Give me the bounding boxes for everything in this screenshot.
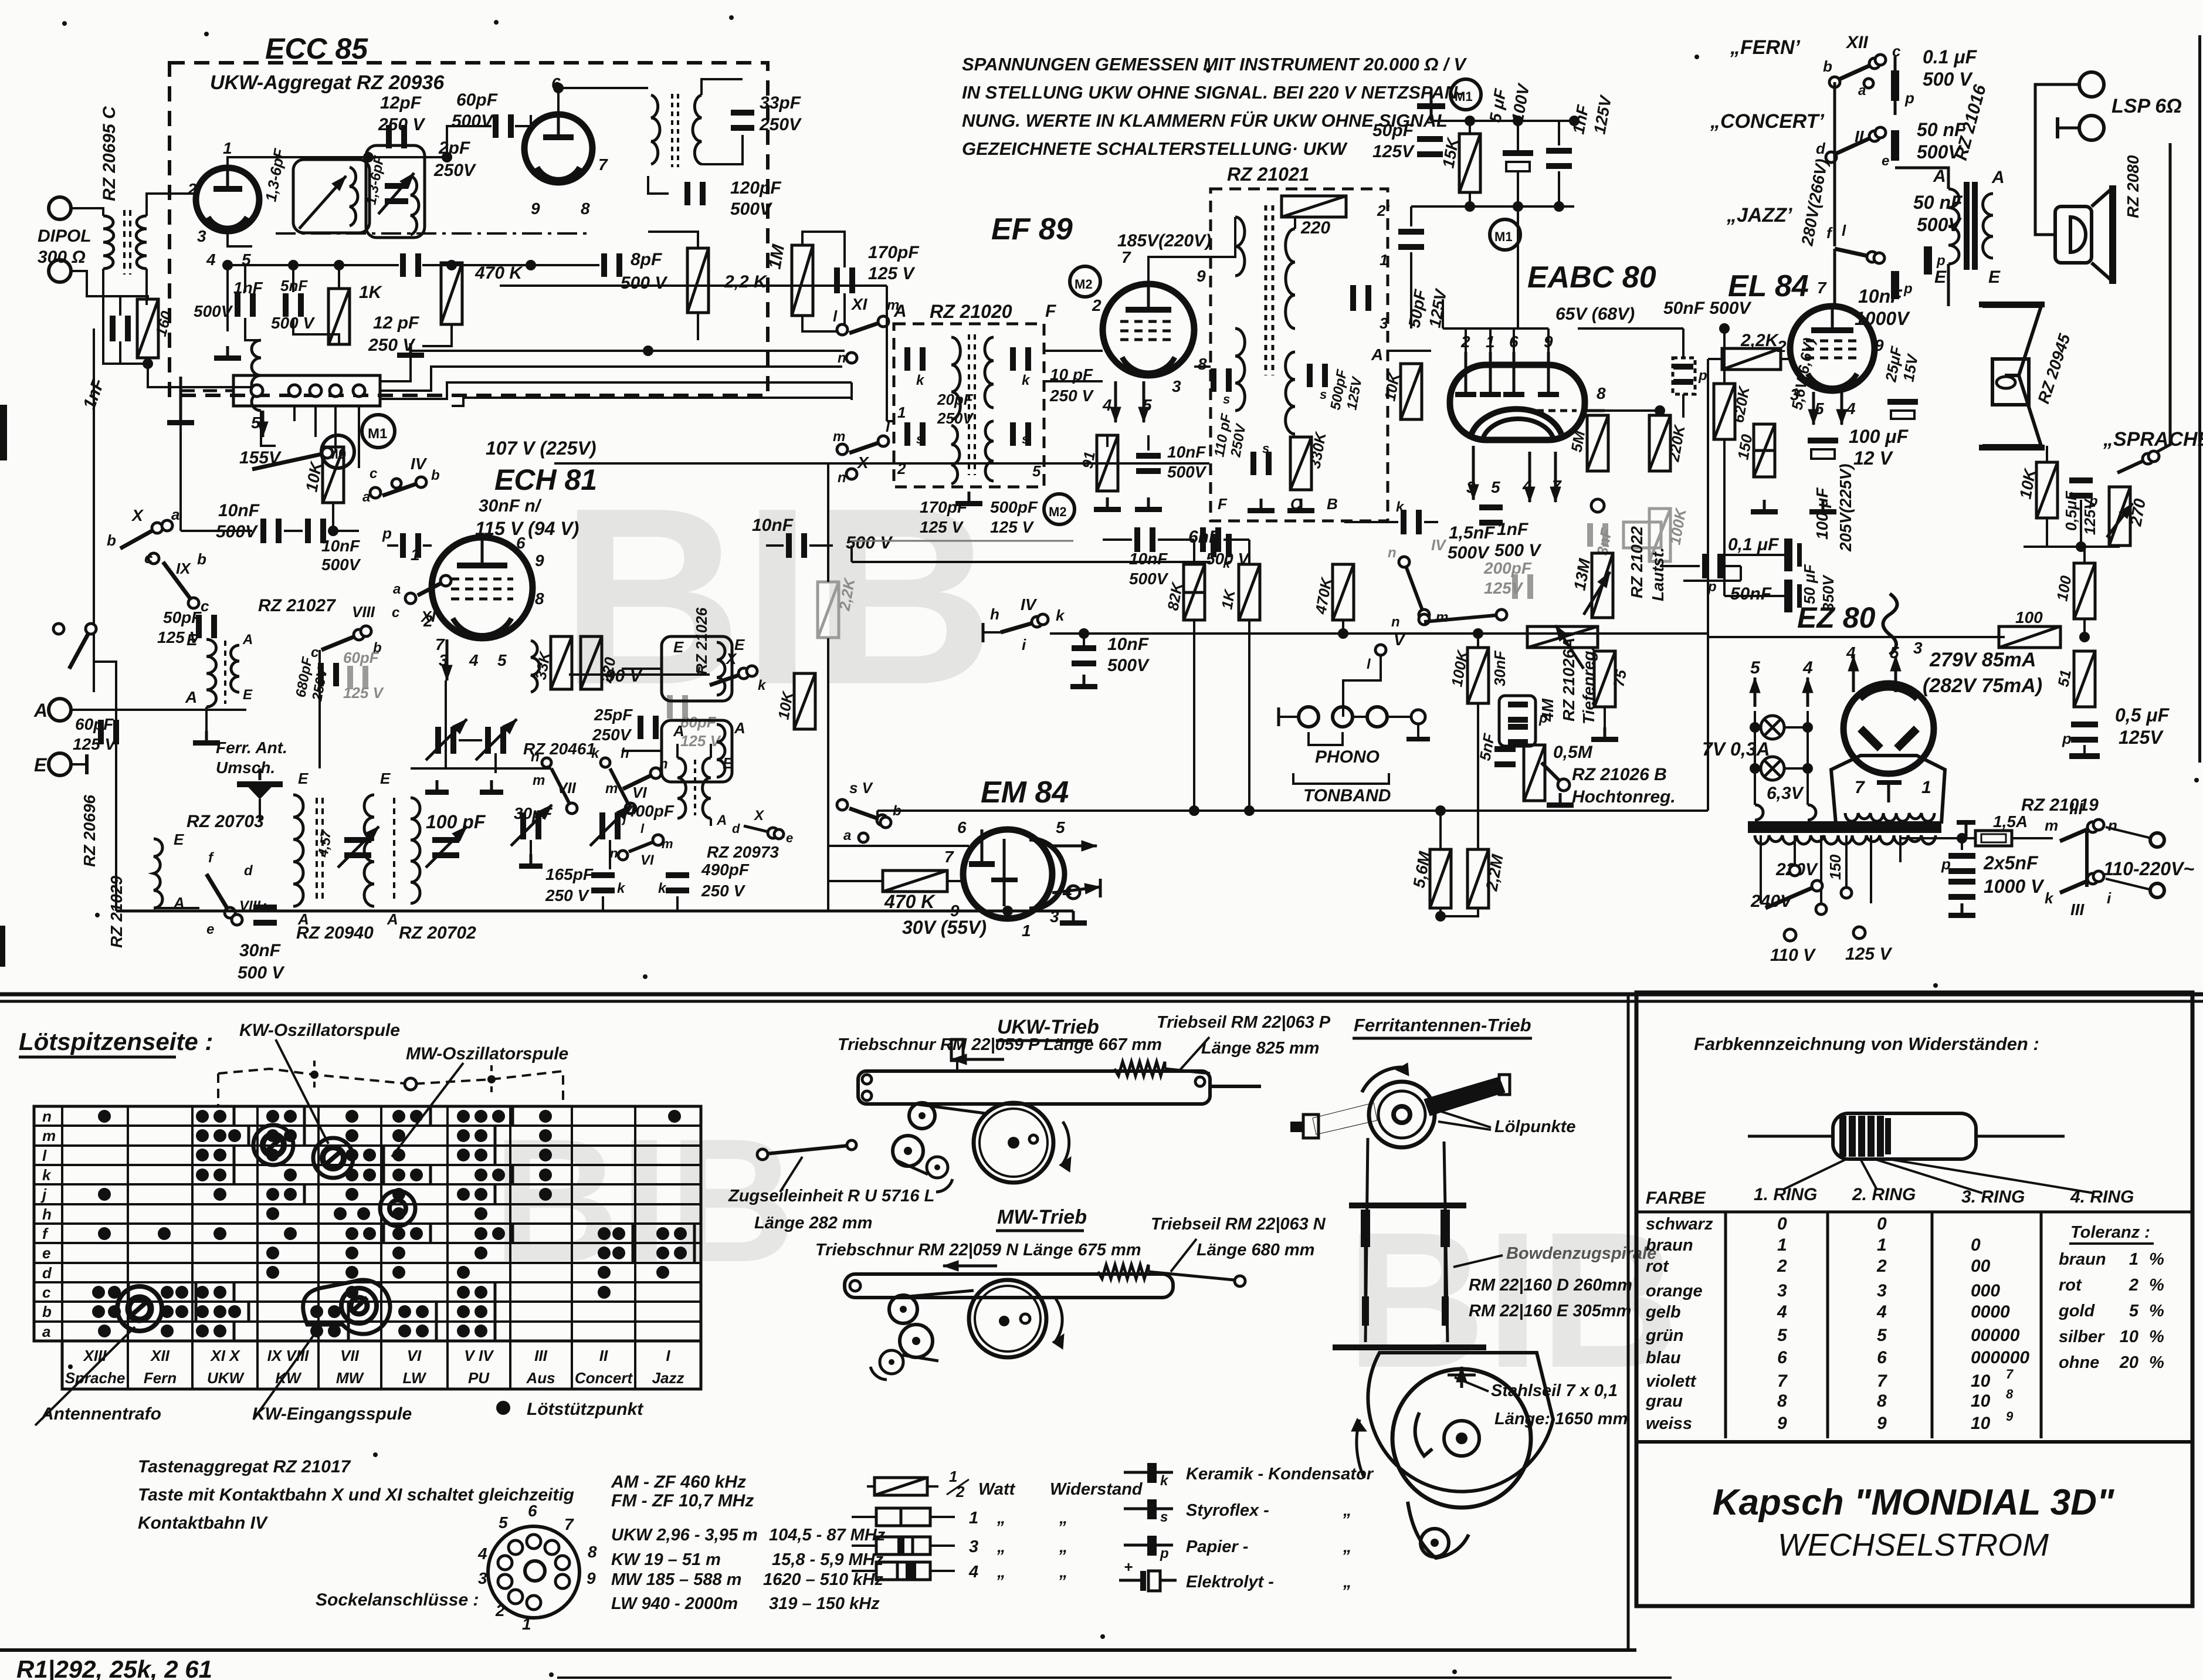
- wire choke bottom to strip: [261, 411, 276, 446]
- tube ECH81: [432, 537, 533, 638]
- label band divider 9: [634, 1341, 636, 1389]
- svg-text:Concert: Concert: [575, 1369, 633, 1387]
- resistor 220K: [1649, 415, 1670, 471]
- resistor 33K ech: [551, 636, 572, 689]
- svg-text:k: k: [42, 1166, 52, 1184]
- svg-text:c: c: [42, 1283, 51, 1301]
- svg-text:51: 51: [2054, 668, 2075, 688]
- bowden spiral left: [1361, 1210, 1370, 1247]
- svg-text:0,1 μF: 0,1 μF: [1728, 535, 1779, 554]
- svg-text:91: 91: [1078, 450, 1099, 470]
- svg-text:gelb: gelb: [1645, 1303, 1681, 1322]
- svg-text:1: 1: [897, 404, 906, 421]
- wire E to bottom: [115, 710, 117, 911]
- capacitor k right em: [1200, 527, 1206, 552]
- svg-text:1: 1: [2129, 1250, 2138, 1269]
- svg-text:3. RING: 3. RING: [1961, 1187, 2025, 1207]
- capacitor 5nF: [1494, 746, 1516, 752]
- svg-text:Triebseil RM 22|063 P: Triebseil RM 22|063 P: [1157, 1013, 1331, 1032]
- svg-text:6: 6: [1777, 1348, 1787, 1367]
- EZ80 pin arrows: [1852, 656, 1855, 692]
- svg-text:9: 9: [1777, 1414, 1787, 1433]
- svg-text:l: l: [42, 1147, 47, 1164]
- trim arrow in box1: [299, 176, 346, 229]
- contact bar: [511, 1166, 514, 1184]
- leader Triebseil P: [1179, 1037, 1209, 1071]
- wire vertical to eabc: [1517, 206, 1519, 207]
- long vertical x1412: [827, 463, 829, 582]
- svg-text:E: E: [243, 687, 253, 703]
- leader Triebseil N: [1171, 1239, 1197, 1272]
- svg-text:15,8 - 5,9 MHz: 15,8 - 5,9 MHz: [772, 1550, 884, 1569]
- bottom node bus m1: [1411, 205, 1574, 208]
- contact bar: [632, 1224, 635, 1243]
- svg-text:3: 3: [1913, 639, 1923, 657]
- svg-text:XI: XI: [420, 608, 436, 625]
- solder dot: [213, 1149, 226, 1161]
- svg-text:III: III: [2069, 800, 2084, 818]
- wire 2x5nf: [1961, 838, 1963, 850]
- svg-text:d: d: [1816, 140, 1826, 157]
- color code leads: [1748, 1135, 1833, 1138]
- svg-text:100 μF: 100 μF: [1849, 426, 1909, 447]
- UKW-Aggregat dashed module box RZ 20936: [170, 63, 768, 395]
- solder dot: [674, 1247, 687, 1259]
- dashed cross marks: [310, 1071, 318, 1079]
- svg-text:n: n: [1388, 545, 1397, 561]
- svg-text:k: k: [1223, 556, 1231, 571]
- svg-text:RZ 21020: RZ 21020: [930, 301, 1012, 322]
- svg-text:SPANNUNGEN GEMESSEN MIT INSTRU: SPANNUNGEN GEMESSEN MIT INSTRUMENT 20.00…: [962, 54, 1467, 74]
- M1 meter circle: [362, 415, 395, 448]
- resistor 2.2K ukw: [687, 248, 709, 313]
- matrix row line 1: [34, 1124, 701, 1127]
- solder dot: [196, 1286, 209, 1299]
- svg-text:LW 940 - 2000m: LW 940 - 2000m: [611, 1594, 738, 1613]
- svg-text:V IV: V IV: [464, 1347, 494, 1364]
- electrolytic cap m1: [1503, 150, 1533, 156]
- svg-text:k: k: [758, 678, 767, 693]
- svg-text:0.1 μF: 0.1 μF: [1923, 46, 1978, 67]
- solder dot: [228, 1305, 241, 1318]
- svg-text:RZ 20461: RZ 20461: [523, 740, 595, 758]
- resistor 10K 155V: [323, 447, 344, 503]
- wire eabc pin8 net: [1605, 409, 1660, 412]
- capacitor 0.5uF 125V bottom: [2071, 722, 2098, 727]
- svg-text:„: „: [997, 1563, 1006, 1581]
- drum up arrow: [1460, 1367, 1463, 1388]
- MW belt lines: [896, 1291, 974, 1298]
- capacitor 30nF 500V: [253, 905, 277, 910]
- contact bar: [429, 1166, 432, 1184]
- tuning box 1 rounded: [293, 160, 370, 233]
- svg-text:000: 000: [1971, 1281, 2000, 1300]
- svg-text:10: 10: [2120, 1327, 2138, 1346]
- svg-text:Keramik - Kondensator: Keramik - Kondensator: [1186, 1465, 1374, 1483]
- trimmer pair mid2: [485, 727, 491, 754]
- svg-text:ECH 81: ECH 81: [494, 463, 597, 496]
- solder dot: [457, 1188, 470, 1201]
- solder dot: [475, 1305, 487, 1318]
- solder dot: [161, 1286, 174, 1299]
- right panel outer box: [1636, 993, 2192, 1606]
- ground at strip left: [179, 411, 182, 420]
- svg-text:1,5nF: 1,5nF: [1449, 523, 1495, 543]
- wire to ground bus left: [148, 364, 252, 387]
- drum hub: [1444, 1421, 1479, 1456]
- wire 51: [2083, 650, 2086, 652]
- svg-text:Ferritantennen-Trieb: Ferritantennen-Trieb: [1354, 1015, 1531, 1035]
- svg-text:k: k: [1056, 607, 1065, 624]
- wire ef cathode: [1106, 435, 1109, 447]
- svg-text:6: 6: [528, 1502, 537, 1520]
- phono jack ground: [1417, 724, 1419, 737]
- capacitor 2x5nF 1000V: [1948, 853, 1975, 859]
- wire EL84 plate to primary: [1947, 264, 1950, 306]
- rz21020 coil4: [985, 421, 994, 481]
- svg-text:e: e: [206, 922, 214, 937]
- leader Antennentrafo: [35, 1327, 135, 1425]
- junction dot: [143, 358, 153, 369]
- svg-text:d: d: [244, 863, 253, 879]
- wire ef plate to rz21021: [1148, 217, 1235, 284]
- wire em84 grid: [828, 880, 883, 882]
- EM84 deflection: [1003, 839, 1006, 906]
- resistor 220 ech: [581, 636, 602, 689]
- osc coil core: [694, 760, 696, 815]
- svg-text:5: 5: [1032, 462, 1041, 480]
- osc coil pair E: [677, 758, 686, 818]
- svg-text:MW-Trieb: MW-Trieb: [997, 1206, 1087, 1228]
- solder dot: [416, 1325, 429, 1337]
- svg-text:8: 8: [535, 590, 544, 608]
- svg-text:LW: LW: [403, 1369, 427, 1387]
- svg-text:5: 5: [2129, 1302, 2139, 1320]
- contact bar: [303, 1185, 306, 1204]
- svg-text:9: 9: [1877, 1414, 1887, 1433]
- MW-Oszillatorspule coil circle: [313, 1138, 353, 1178]
- solder dot: [196, 1129, 209, 1142]
- solder dot: [492, 1227, 505, 1240]
- svg-text:0: 0: [1971, 1235, 1981, 1255]
- svg-text:EABC 80: EABC 80: [1527, 260, 1656, 294]
- svg-text:6: 6: [1877, 1348, 1887, 1367]
- MW cord right: [1148, 1272, 1234, 1280]
- svg-text:10nF: 10nF: [1858, 286, 1903, 307]
- svg-text:d: d: [732, 821, 740, 836]
- svg-text:schwarz: schwarz: [1646, 1215, 1713, 1234]
- trimmer 100pF: [432, 837, 459, 843]
- wire XI to box: [883, 321, 894, 322]
- wires top pins eabc: [1465, 328, 1467, 352]
- gray cap 60pF 125V ech: [347, 666, 353, 689]
- svg-text:A: A: [673, 722, 684, 740]
- solder dot: [457, 1286, 470, 1299]
- top node bus: [1431, 120, 1574, 122]
- svg-text:Sockelanschlüsse :: Sockelanschlüsse :: [316, 1590, 479, 1610]
- svg-text:2: 2: [897, 460, 906, 477]
- svg-text:n: n: [838, 470, 846, 486]
- svg-text:UKW: UKW: [207, 1369, 245, 1387]
- IF line y487: [500, 284, 887, 287]
- svg-text:FM - ZF 10,7 MHz: FM - ZF 10,7 MHz: [611, 1491, 754, 1510]
- wire 620K net: [1723, 328, 1726, 384]
- svg-text:m: m: [2045, 817, 2058, 834]
- RZ21021 dashed box: [1211, 189, 1388, 521]
- contact bar: [382, 1166, 385, 1184]
- svg-text:VIII: VIII: [352, 603, 375, 621]
- switch X ef: [849, 441, 883, 453]
- svg-text:60pF: 60pF: [456, 90, 498, 110]
- svg-text:n: n: [659, 756, 668, 772]
- switch III upper: [2060, 827, 2093, 841]
- svg-text:Bowdenzugspirale: Bowdenzugspirale: [1506, 1244, 1656, 1263]
- svg-text:4M: 4M: [1538, 698, 1557, 722]
- electrolytic 25uF: [1887, 399, 1918, 405]
- capacitor 10nF 500V k mid: [786, 533, 792, 558]
- solder dot: [539, 1149, 552, 1161]
- rz21020 core: [968, 334, 970, 475]
- osc coil pair b: [703, 758, 711, 818]
- svg-text:b: b: [197, 550, 206, 568]
- svg-text:165pF: 165pF: [545, 865, 594, 883]
- svg-text:A: A: [1991, 168, 2005, 187]
- svg-text:e: e: [1882, 153, 1889, 169]
- solder dot: [598, 1286, 611, 1299]
- wire 15nf: [1344, 521, 1398, 523]
- svg-text:MW: MW: [336, 1369, 365, 1387]
- drum tail: [1408, 1502, 1469, 1558]
- wire III vertical: [2085, 832, 2089, 887]
- contact bar: [494, 1302, 497, 1321]
- svg-text:Ferr. Ant.: Ferr. Ant.: [216, 739, 287, 757]
- svg-text:„: „: [1343, 1573, 1352, 1591]
- svg-text:5M: 5M: [1567, 429, 1588, 453]
- svg-text:m: m: [662, 836, 673, 851]
- svg-text:500pF: 500pF: [990, 498, 1038, 516]
- svg-text:2: 2: [1092, 296, 1101, 314]
- svg-text:k: k: [916, 372, 925, 388]
- label band divider 8: [571, 1341, 573, 1389]
- svg-text:h: h: [42, 1205, 52, 1223]
- phono left tick: [1279, 716, 1299, 718]
- matrix row line 4: [34, 1183, 701, 1186]
- svg-text:1620 – 510 kHz: 1620 – 510 kHz: [763, 1570, 883, 1589]
- separator line lower: [0, 1000, 2203, 1003]
- bus y958: [852, 561, 1211, 563]
- svg-text:VI: VI: [632, 784, 647, 801]
- svg-text:KW-Eingangsspule: KW-Eingangsspule: [252, 1404, 412, 1424]
- wire em84 bus b: [828, 845, 969, 847]
- svg-text:2: 2: [1777, 1256, 1787, 1276]
- tube ECC85 triode A: [196, 168, 259, 231]
- svg-text:a: a: [362, 489, 370, 505]
- UKW belt: [915, 1104, 985, 1113]
- svg-text:1: 1: [1022, 922, 1031, 940]
- solder dot: [345, 1149, 358, 1161]
- svg-text:Widerstand: Widerstand: [1050, 1480, 1143, 1499]
- RZ21020 dashed box: [894, 324, 1044, 487]
- gray cap 60pF: [667, 695, 673, 719]
- matrix column line 2: [191, 1106, 194, 1341]
- svg-text:1: 1: [1777, 1235, 1787, 1255]
- svg-text:B: B: [1327, 495, 1338, 513]
- bus line 2: [380, 367, 842, 391]
- svg-text:p: p: [1903, 281, 1913, 297]
- resistor 51: [2074, 651, 2095, 707]
- capacitor 10nF 500V k em: [1072, 645, 1096, 651]
- solder dot: [161, 1325, 174, 1337]
- svg-text:2,2 K: 2,2 K: [724, 272, 768, 292]
- pot 13M RZ21022 Lautst: [1592, 553, 1613, 618]
- capacitor s3: [1250, 452, 1256, 475]
- wire left tall vertical: [93, 328, 95, 662]
- wire 82K/1K to bus: [1193, 540, 1195, 564]
- wire 65V to 50nF: [1578, 327, 1683, 330]
- solder dot: [266, 1129, 279, 1142]
- svg-text:silber: silber: [2059, 1327, 2105, 1346]
- solder dot: [475, 1207, 487, 1220]
- switch IX: [163, 562, 194, 603]
- switch IV top: [382, 482, 421, 496]
- small coil circle mid: [380, 1191, 415, 1226]
- svg-text:MW-Oszillatorspule: MW-Oszillatorspule: [406, 1044, 568, 1063]
- matrix column line 4: [317, 1106, 320, 1341]
- drum tail circle: [1421, 1529, 1449, 1557]
- svg-text:30pF: 30pF: [514, 804, 553, 822]
- svg-text:75: 75: [1609, 668, 1630, 688]
- wire 0.1uF: [1660, 565, 1700, 567]
- svg-text:F: F: [1218, 495, 1228, 513]
- solder dot: [363, 1149, 376, 1161]
- solder dot: [345, 1188, 358, 1201]
- M2 circle top: [1070, 266, 1100, 297]
- capacitor 50nF 500V fern: [1891, 130, 1899, 161]
- solder dot: [457, 1110, 470, 1123]
- wire m1 drop: [1410, 206, 1412, 226]
- svg-text:EF 89: EF 89: [991, 212, 1073, 246]
- switch VII mid lever: [551, 768, 572, 808]
- svg-text:c: c: [201, 597, 209, 615]
- svg-text:E: E: [34, 754, 48, 775]
- svg-text:+: +: [1124, 1558, 1133, 1576]
- solder dot: [539, 1110, 552, 1123]
- svg-text:4. RING: 4. RING: [2070, 1187, 2134, 1207]
- svg-text:„: „: [997, 1537, 1006, 1556]
- contact bar: [233, 1166, 236, 1184]
- leader zugseil: [780, 1157, 802, 1192]
- svg-text:Toleranz :: Toleranz :: [2070, 1223, 2150, 1242]
- svg-text:RZ 20702: RZ 20702: [399, 923, 476, 943]
- svg-text:250 V: 250 V: [545, 886, 589, 905]
- svg-text:GEZEICHNETE SCHALTERSTELLUNG·: GEZEICHNETE SCHALTERSTELLUNG· UKW: [962, 138, 1348, 159]
- wire taps down: [1796, 934, 1846, 936]
- svg-text:125V: 125V: [2119, 727, 2164, 748]
- svg-text:30nF n/: 30nF n/: [479, 496, 542, 516]
- big drum outer shape: [1368, 1353, 1553, 1492]
- wire to bottom bus: [116, 910, 265, 912]
- switch VI small lever: [629, 840, 658, 852]
- UKW rollers: [909, 1103, 935, 1129]
- svg-text:Jazz: Jazz: [652, 1369, 684, 1387]
- svg-text:RZ 21026: RZ 21026: [693, 607, 710, 675]
- svg-text:VI: VI: [640, 852, 655, 868]
- cathode coil ech: [531, 641, 540, 692]
- KW-Oszillatorspule coil circle: [253, 1125, 293, 1165]
- electrolytic 100uF 350V: [1784, 538, 1792, 571]
- svg-text:9: 9: [1875, 336, 1884, 354]
- svg-text:250 V: 250 V: [701, 882, 745, 900]
- solder dot: [108, 1305, 121, 1318]
- EABC80 dashes: [1537, 409, 1577, 412]
- legend resistor 4 watt: [876, 1562, 930, 1580]
- leader loetpunkte: [1436, 1110, 1491, 1127]
- svg-text:VII: VII: [340, 1347, 360, 1364]
- svg-text:k: k: [617, 880, 626, 896]
- UKW bar extension: [1210, 1085, 1261, 1088]
- solder dot: [98, 1110, 111, 1123]
- svg-text:107 V (225V): 107 V (225V): [486, 438, 596, 459]
- wire 100s: [2083, 619, 2086, 637]
- svg-text:k: k: [1396, 499, 1405, 515]
- svg-text:RZ 20940: RZ 20940: [296, 923, 374, 943]
- svg-text:MW 185 – 588 m: MW 185 – 588 m: [611, 1570, 741, 1589]
- svg-text:k: k: [1022, 372, 1031, 388]
- contact bar: [511, 1107, 514, 1126]
- MW spring: [1098, 1265, 1148, 1279]
- wire box net: [1294, 216, 1296, 229]
- UKW spring: [1114, 1062, 1165, 1076]
- electrolytic 50uF 350V: [1784, 580, 1792, 612]
- solder dot: [410, 1110, 423, 1123]
- svg-text:i: i: [1022, 636, 1026, 653]
- svg-text:0: 0: [1877, 1214, 1887, 1234]
- capacitor 60pF 125V: [98, 720, 104, 744]
- pilot lamp 1: [1761, 716, 1784, 739]
- cap 5uF: [1430, 92, 1433, 121]
- svg-text:c: c: [144, 549, 153, 567]
- svg-text:LSP 6Ω: LSP 6Ω: [2112, 95, 2182, 117]
- svg-text:4: 4: [477, 1544, 487, 1563]
- wire jazz vertical: [1833, 249, 1836, 305]
- resistor 1K em: [1239, 564, 1260, 620]
- svg-text:8: 8: [581, 199, 590, 218]
- wire 50nF down: [1682, 394, 1685, 418]
- drum rot arrow: [1357, 1420, 1364, 1478]
- svg-text:RZ 20696: RZ 20696: [80, 795, 99, 867]
- svg-text:2: 2: [187, 180, 197, 198]
- contact bar: [233, 1322, 236, 1340]
- wire cap em: [1083, 634, 1085, 645]
- wire sec bottom: [1993, 252, 2035, 276]
- EABC80 cathode arc: [1471, 409, 1561, 435]
- svg-text:Umsch.: Umsch.: [216, 758, 275, 777]
- contact bar: [511, 1224, 514, 1243]
- solder dot: [475, 1110, 487, 1123]
- antenna transformer primary coil: [103, 216, 114, 269]
- switch I jazz: [1835, 249, 1872, 257]
- solder dot: [392, 1149, 405, 1161]
- core RZ20940: [316, 798, 318, 903]
- svg-text:k: k: [1160, 1473, 1169, 1489]
- switch main left lever: [69, 629, 91, 669]
- svg-text:„: „: [1059, 1563, 1068, 1581]
- leader line KW-Osz: [276, 1039, 328, 1144]
- coil A-E secondary: [231, 645, 239, 692]
- solder dot: [213, 1227, 226, 1240]
- svg-text:s: s: [1223, 392, 1230, 407]
- solder dot: [668, 1110, 681, 1123]
